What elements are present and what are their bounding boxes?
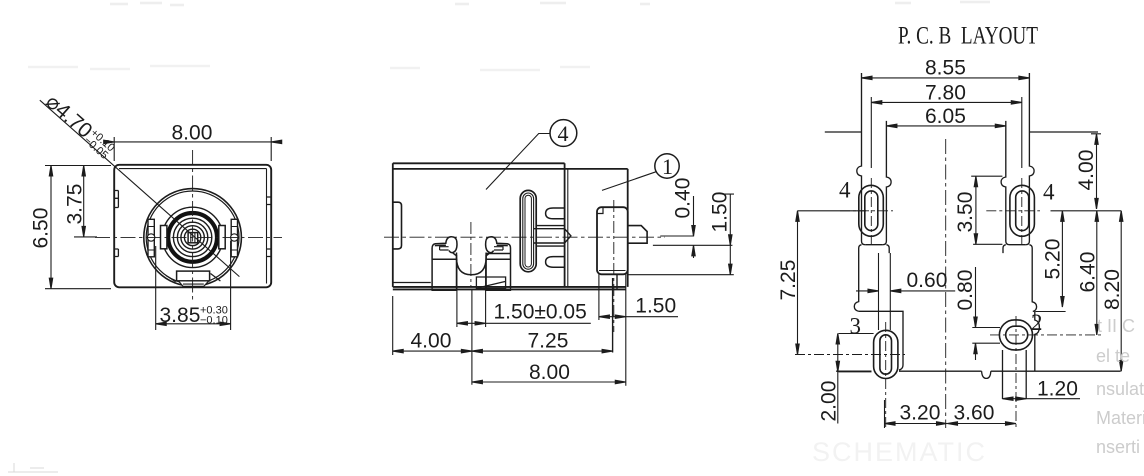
pin leg below block xyxy=(613,275,617,353)
center pin square xyxy=(188,233,198,243)
outline right channel inner wall with bump xyxy=(1001,121,1009,245)
svg-text:6.50: 6.50 xyxy=(30,208,53,249)
pad4 center ext right xyxy=(1051,210,1122,212)
svg-text:4.00: 4.00 xyxy=(1075,150,1098,191)
pad 4 left inner xyxy=(865,191,878,231)
front view body outline xyxy=(114,165,271,287)
centerline pad4 left xyxy=(870,178,872,247)
right contact leg xyxy=(486,237,511,288)
svg-text:SCHEMATIC: SCHEMATIC xyxy=(812,437,987,467)
dim 8.00 top line xyxy=(114,141,271,143)
pad 4 right inner xyxy=(1016,191,1029,231)
svg-text:1.50: 1.50 xyxy=(635,295,676,318)
dim 7.25 xyxy=(472,350,613,352)
dim 2.00 xyxy=(838,334,874,424)
svg-text:7.25: 7.25 xyxy=(777,260,800,301)
right stem to pad2 xyxy=(1035,312,1040,372)
pad 2 outer xyxy=(999,320,1032,350)
outline left channel inner wall with bump xyxy=(883,121,891,245)
svg-text:3.85: 3.85 xyxy=(160,304,201,327)
dim 7.80 xyxy=(871,97,1022,168)
centerline vertical xyxy=(192,150,194,301)
svg-text:0.40: 0.40 xyxy=(672,178,695,219)
svg-text:−0.10: −0.10 xyxy=(200,315,228,327)
T-slot stem xyxy=(534,226,571,247)
svg-text:3.50: 3.50 xyxy=(954,192,977,233)
left clamp tab xyxy=(161,226,167,249)
centerline vertical through block xyxy=(613,200,615,332)
dim 3.85 line xyxy=(156,323,231,325)
balloon 1 xyxy=(655,154,679,178)
svg-text:4: 4 xyxy=(1043,180,1055,205)
centerline horizontal side view xyxy=(384,236,665,238)
dim 1.50 lower right xyxy=(599,316,678,318)
left stem to pad3 xyxy=(859,311,903,370)
T-slot vertical stadium xyxy=(520,190,536,271)
bottom edge pad3 to notch xyxy=(899,370,1121,372)
dim 4.00 pcb xyxy=(1091,134,1101,209)
svg-text:2.00: 2.00 xyxy=(818,381,841,422)
terminal block inner bottom xyxy=(599,270,626,272)
left latch bump xyxy=(393,202,402,249)
svg-text:5.20: 5.20 xyxy=(1042,239,1065,280)
pad 3 outer xyxy=(874,330,898,378)
svg-text:4.00: 4.00 xyxy=(411,330,452,353)
svg-text:3: 3 xyxy=(850,314,862,339)
centerline pad2 xyxy=(1015,316,1017,428)
svg-text:1.50: 1.50 xyxy=(708,192,731,233)
left contact leg xyxy=(432,237,457,288)
terminal block top step xyxy=(597,207,603,213)
left wall groove xyxy=(114,191,118,208)
centerline vertical through legs xyxy=(470,222,472,287)
svg-text:0.80: 0.80 xyxy=(954,270,977,311)
right leg inner step xyxy=(494,247,503,250)
dim 0.80 xyxy=(972,267,1000,360)
dim 0.40 xyxy=(653,196,733,258)
right section upper notch xyxy=(546,208,565,219)
right section lower notch xyxy=(546,257,565,268)
svg-text:Materi: Materi xyxy=(1096,408,1144,428)
outline right channel outer wall with bump xyxy=(1026,73,1034,245)
ext lines bottom xyxy=(393,259,626,386)
dim 1.20 xyxy=(1003,398,1081,400)
dim 3.50 xyxy=(971,176,1002,244)
text dia 4.70 tol xyxy=(41,90,118,162)
outline left wing xyxy=(825,131,862,133)
dim 8.20 xyxy=(1120,211,1122,371)
svg-text:3.75: 3.75 xyxy=(64,184,87,225)
svg-text:6.05: 6.05 xyxy=(925,105,966,128)
left section bottom inset line xyxy=(393,282,431,284)
bottom side hooks xyxy=(166,274,220,282)
centerline pad3 xyxy=(885,322,887,430)
pad 3 inner xyxy=(880,335,892,374)
ghost faded fragments top strip xyxy=(28,2,990,70)
svg-text:8.00: 8.00 xyxy=(529,361,570,384)
U bend between legs xyxy=(457,253,487,275)
outline right wing xyxy=(1029,131,1098,133)
left leg inner step xyxy=(440,247,449,250)
svg-text:nsulat: nsulat xyxy=(1096,379,1144,399)
dim 3.85 extension lines xyxy=(156,241,231,330)
svg-text:7.25: 7.25 xyxy=(528,330,569,353)
svg-text:7.80: 7.80 xyxy=(925,82,966,105)
balloon 4 xyxy=(550,120,577,147)
dim 6.50 extension lines xyxy=(45,166,111,289)
front body inner top line xyxy=(119,168,267,170)
svg-text:8.55: 8.55 xyxy=(925,57,966,80)
right channel bottom xyxy=(1010,244,1026,246)
solder pin xyxy=(628,226,647,244)
ghost title block fragment bottom-left xyxy=(8,463,58,472)
terminal block xyxy=(597,207,628,274)
kinked pin window xyxy=(476,277,505,289)
centerline horizontal xyxy=(95,236,282,238)
pad 4 left outer xyxy=(859,185,884,236)
centerline pad4 right xyxy=(1021,178,1023,247)
svg-text:1.20: 1.20 xyxy=(1037,378,1078,401)
dim 8.55 xyxy=(862,77,1030,79)
dim 8.00 bottom xyxy=(472,381,626,383)
leader diameter 4.70 xyxy=(40,100,240,276)
bottom notch semicircle xyxy=(982,371,991,378)
svg-text:t II C: t II C xyxy=(1097,316,1135,336)
dim 8.00 top extension lines xyxy=(114,137,271,161)
pad 2 inner xyxy=(1006,326,1028,343)
left channel bottom xyxy=(865,244,883,246)
right side contact xyxy=(231,219,238,256)
dim 3.20 3.60 xyxy=(885,400,1017,428)
circle r30 xyxy=(162,207,222,267)
leg feet xyxy=(432,287,510,290)
svg-text:4: 4 xyxy=(558,121,569,146)
dim 5.20 xyxy=(1035,211,1065,312)
left side contact xyxy=(147,219,154,256)
dim 4.00 xyxy=(393,350,472,352)
side body bottom double line xyxy=(393,287,626,290)
dim 6.50 line xyxy=(50,166,52,289)
inner circles xyxy=(173,218,211,256)
right stem xyxy=(1003,245,1037,312)
svg-text:1.50±0.05: 1.50±0.05 xyxy=(494,301,587,324)
svg-text:nserti: nserti xyxy=(1096,437,1140,457)
dim 3.75 line xyxy=(74,166,97,237)
dim 7.25 pcb xyxy=(798,211,867,355)
dim 0.60 xyxy=(856,253,955,330)
side body outline xyxy=(393,163,628,287)
svg-text:3.20: 3.20 xyxy=(900,402,941,425)
svg-text:2: 2 xyxy=(1031,310,1043,335)
svg-text:P. C. B LAYOUT: P. C. B LAYOUT xyxy=(898,23,1038,50)
svg-text:0.60: 0.60 xyxy=(907,269,948,292)
dim 1.50+-0.05 xyxy=(457,322,591,324)
front body inner right line xyxy=(266,169,268,284)
bottom tab xyxy=(177,271,210,281)
svg-text:el te: el te xyxy=(1096,346,1130,366)
pin2 leg lines xyxy=(1003,350,1027,399)
bottom edge left of pad3 xyxy=(836,370,871,372)
svg-text:1: 1 xyxy=(662,154,673,179)
dim 1.50 right vertical xyxy=(628,194,734,275)
outline left channel outer wall with bump xyxy=(857,73,865,245)
dark knurled ring xyxy=(168,213,217,262)
svg-text:8.00: 8.00 xyxy=(172,122,213,145)
right wall snap windows xyxy=(267,197,272,257)
outer barrel circle (double) xyxy=(144,189,242,287)
left stem xyxy=(854,245,889,312)
centerline pcb vertical xyxy=(945,139,947,428)
svg-text:3.60: 3.60 xyxy=(954,402,995,425)
svg-text:6.40: 6.40 xyxy=(1077,252,1100,293)
dim 6.05 xyxy=(886,125,1005,127)
svg-text:8.20: 8.20 xyxy=(1101,269,1124,310)
right clamp tab xyxy=(219,226,225,249)
dim 6.40 xyxy=(1096,211,1098,335)
pad 4 right outer xyxy=(1010,185,1035,236)
svg-text:4: 4 xyxy=(839,178,851,203)
